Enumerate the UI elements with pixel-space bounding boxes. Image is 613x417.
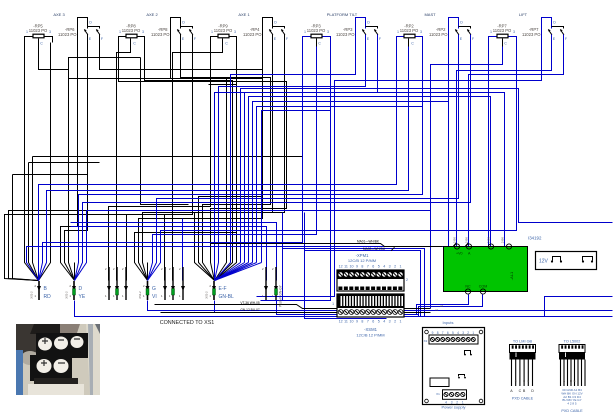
photo of joystick assembly — [16, 324, 100, 395]
wire — [100, 51, 263, 281]
svg-text:8: 8 — [437, 331, 439, 335]
potentiometer -RP5 — [25, 24, 53, 47]
svg-text:11: 11 — [344, 320, 348, 324]
svg-text:9: 9 — [356, 320, 358, 324]
svg-text:11023 PO: 11023 PO — [243, 32, 262, 37]
wire — [257, 51, 542, 297]
wire — [29, 163, 39, 281]
wire — [222, 39, 224, 47]
svg-text:4 2 8 5: 4 2 8 5 — [567, 402, 577, 406]
wire — [192, 35, 194, 51]
wire — [502, 39, 504, 47]
wire — [27, 43, 489, 281]
wire — [253, 102, 449, 263]
svg-text:2: 2 — [394, 320, 396, 324]
wire — [88, 27, 100, 29]
svg-text:CONNECTED TO XS1: CONNECTED TO XS1 — [160, 320, 215, 326]
wire — [245, 93, 505, 263]
wire — [277, 301, 419, 315]
wire — [263, 18, 273, 51]
connector pin D — [65, 281, 86, 300]
wire — [69, 58, 141, 281]
wire — [25, 37, 53, 43]
wire — [147, 263, 149, 281]
connector pin — [179, 267, 185, 300]
switch -RP4 — [243, 18, 289, 51]
wire — [583, 257, 593, 261]
potentiometer -RP7 — [489, 24, 517, 47]
svg-text:TO L5002: TO L5002 — [564, 340, 581, 344]
connector pin B — [30, 281, 52, 300]
svg-text:-XSM1: -XSM1 — [364, 327, 377, 332]
svg-text:11023 PO: 11023 PO — [58, 32, 77, 37]
svg-text:5: 5 — [452, 331, 454, 335]
wire — [356, 18, 366, 51]
svg-text:MAST: MAST — [424, 12, 436, 17]
wire — [489, 37, 517, 43]
wire — [419, 295, 483, 317]
wire — [257, 107, 423, 263]
wire — [145, 43, 233, 281]
switch -RP3 — [336, 18, 382, 51]
svg-text:7: 7 — [367, 320, 369, 324]
svg-text:11023 PO: 11023 PO — [29, 28, 48, 33]
svg-text:2-BK: 2-BK — [453, 237, 457, 243]
wire — [39, 47, 69, 70]
wire — [148, 47, 317, 281]
wire — [126, 215, 128, 281]
svg-text:D: D — [570, 379, 572, 383]
svg-text:1: 1 — [304, 30, 306, 34]
svg-text:D: D — [274, 21, 277, 25]
svg-text:MA02—WH/BU: MA02—WH/BU — [363, 247, 386, 251]
svg-text:Inputs: Inputs — [443, 320, 454, 325]
svg-text:AXE 1: AXE 1 — [238, 12, 250, 17]
wire — [182, 219, 184, 281]
wire — [215, 263, 219, 281]
svg-text:AXE 2: AXE 2 — [146, 12, 158, 17]
svg-text:11023 PO: 11023 PO — [522, 32, 541, 37]
svg-text:GN-12 BU-07: GN-12 BU-07 — [240, 308, 260, 312]
PCB module -AL1 — [444, 244, 528, 294]
wire — [148, 301, 613, 311]
connector pin G — [138, 281, 157, 300]
svg-text:5: 5 — [378, 265, 380, 269]
switch -RP2 — [429, 18, 475, 51]
svg-text:E-F: E-F — [219, 286, 227, 292]
svg-text:3: 3 — [389, 265, 391, 269]
wire — [75, 301, 613, 317]
svg-text:10: 10 — [350, 320, 354, 324]
wire — [209, 85, 237, 281]
wire — [33, 157, 39, 281]
svg-text:3: 3 — [49, 30, 51, 34]
wire — [377, 35, 379, 51]
wire — [78, 18, 88, 51]
svg-text:XS1-2: XS1-2 — [30, 291, 34, 299]
svg-text:11023 PO: 11023 PO — [151, 32, 170, 37]
wire — [5, 51, 193, 281]
svg-text:1: 1 — [26, 30, 28, 34]
svg-text:4: 4 — [383, 320, 385, 324]
wire — [241, 89, 613, 263]
svg-text:1: 1 — [397, 30, 399, 34]
svg-text:12C/B 12 P/MM: 12C/B 12 P/MM — [348, 258, 376, 263]
wire — [75, 51, 471, 281]
wire — [448, 51, 450, 247]
wire — [214, 263, 216, 281]
svg-text:6: 6 — [447, 331, 449, 335]
svg-text:12C/B 12 P/MM: 12C/B 12 P/MM — [356, 333, 384, 338]
svg-text:C: C — [318, 42, 321, 46]
wire — [459, 375, 465, 377]
svg-text:11: 11 — [344, 265, 348, 269]
wire — [33, 156, 303, 158]
svg-text:G: G — [152, 286, 156, 292]
svg-text:11023 PO: 11023 PO — [122, 28, 141, 33]
switch -RP6 — [58, 18, 104, 51]
svg-text:B: B — [563, 379, 565, 383]
wire — [61, 51, 78, 281]
svg-text:11023 PO: 11023 PO — [214, 28, 233, 33]
svg-text:2-BK: 2-BK — [465, 237, 469, 243]
wire — [272, 35, 274, 51]
svg-text:RD: RD — [44, 294, 52, 300]
svg-text:Power supply: Power supply — [441, 405, 465, 410]
wire — [180, 35, 182, 51]
wire — [545, 297, 613, 317]
svg-text:COM: COM — [479, 285, 487, 289]
svg-text:5: 5 — [378, 320, 380, 324]
wire — [449, 18, 459, 51]
svg-text:11023 PO: 11023 PO — [400, 28, 419, 33]
wire — [303, 37, 331, 43]
wire — [148, 51, 459, 281]
wire — [87, 35, 89, 51]
wire — [139, 51, 263, 281]
svg-text:3: 3 — [142, 30, 144, 34]
svg-text:E: E — [527, 379, 529, 383]
connector pin — [113, 267, 119, 300]
wire — [148, 43, 517, 281]
wire — [262, 111, 331, 263]
svg-text:PLATFORM TILT: PLATFORM TILT — [327, 12, 358, 17]
wire — [171, 51, 227, 281]
svg-text:VT-36 WH-05: VT-36 WH-05 — [240, 301, 260, 305]
wire — [119, 37, 145, 43]
svg-text:4: 4 — [457, 331, 459, 335]
connector pin — [169, 267, 175, 300]
svg-text:1: 1 — [400, 265, 402, 269]
wire — [542, 18, 552, 51]
svg-text:NC: NC — [465, 285, 471, 289]
svg-text:X1: X1 — [436, 392, 440, 396]
wire — [215, 51, 378, 263]
wire — [316, 39, 318, 47]
connector TO LMI GB — [510, 340, 536, 401]
wire — [397, 37, 423, 43]
wire — [13, 174, 88, 176]
potentiometer -RP3 — [303, 24, 331, 47]
svg-text:8: 8 — [361, 265, 363, 269]
wire — [215, 263, 257, 281]
wire VT-36 — [155, 305, 431, 309]
wire — [87, 210, 431, 212]
svg-text:7: 7 — [367, 265, 369, 269]
svg-text:YE: YE — [79, 294, 86, 300]
connector pin — [105, 267, 111, 300]
connector pin — [122, 267, 128, 300]
svg-text:3: 3 — [420, 30, 422, 34]
wire — [469, 51, 564, 247]
svg-text:6: 6 — [372, 320, 374, 324]
wire — [39, 43, 303, 281]
wire — [552, 27, 564, 29]
wire — [119, 43, 287, 281]
svg-text:PXD CABLE: PXD CABLE — [561, 409, 583, 413]
wire — [135, 43, 237, 281]
svg-text:VI: VI — [152, 294, 157, 300]
svg-text:C: C — [133, 42, 136, 46]
svg-text:+V0: +V0 — [456, 252, 463, 256]
wire — [458, 35, 460, 51]
svg-text:Push-P GN-GY: Push-P GN-GY — [279, 284, 283, 307]
wire — [71, 227, 267, 281]
svg-text:TO LMI GB: TO LMI GB — [513, 340, 533, 344]
svg-text:2: 2 — [406, 278, 408, 282]
wire — [69, 78, 263, 80]
svg-text:1: 1 — [332, 302, 334, 306]
svg-text:I34192: I34192 — [528, 236, 542, 241]
wire — [143, 51, 273, 281]
wire — [117, 47, 131, 281]
wire — [563, 35, 565, 51]
svg-text:3: 3 — [327, 30, 329, 34]
svg-text:E: E — [574, 379, 576, 383]
svg-text:C: C — [411, 42, 414, 46]
svg-text:2: 2 — [394, 265, 396, 269]
svg-text:PXD CABLE: PXD CABLE — [512, 397, 534, 401]
wire — [173, 47, 223, 281]
svg-text:3: 3 — [513, 30, 515, 34]
wire — [215, 263, 249, 281]
svg-text:GN-BL: GN-BL — [219, 294, 235, 300]
svg-text:C: C — [40, 42, 43, 46]
wire — [195, 51, 285, 281]
svg-text:6: 6 — [372, 265, 374, 269]
battery 12V — [536, 252, 597, 270]
terminal strip -XSM1 — [332, 294, 404, 338]
wire — [39, 43, 51, 281]
svg-text:2: 2 — [467, 331, 469, 335]
svg-text:XS1-2: XS1-2 — [205, 291, 209, 299]
svg-text:7: 7 — [442, 331, 444, 335]
svg-text:X2: X2 — [424, 339, 428, 343]
wire — [215, 263, 245, 281]
svg-text:12: 12 — [339, 320, 343, 324]
svg-text:1: 1 — [472, 331, 474, 335]
svg-text:XS1-2: XS1-2 — [138, 291, 142, 299]
wire — [181, 27, 193, 29]
svg-text:11023 PO: 11023 PO — [307, 28, 326, 33]
svg-text:3: 3 — [462, 331, 464, 335]
svg-text:C: C — [225, 42, 228, 46]
potentiometer -RP2 — [397, 24, 423, 47]
wire — [25, 43, 39, 281]
wire — [109, 43, 211, 281]
switch -RP7 — [522, 18, 568, 51]
wire — [215, 263, 262, 281]
svg-text:12: 12 — [339, 265, 343, 269]
wire — [214, 263, 216, 281]
potentiometer -RP9 — [211, 24, 237, 47]
wire MA01 — [211, 244, 443, 247]
svg-text:10: 10 — [350, 265, 354, 269]
switch -RP8 — [151, 18, 197, 51]
wire — [465, 351, 471, 355]
wire — [9, 211, 173, 281]
wire — [431, 47, 503, 309]
wire — [459, 27, 471, 29]
wire — [282, 213, 284, 301]
svg-text:D: D — [553, 21, 556, 25]
svg-text:D: D — [79, 286, 83, 292]
wire — [261, 43, 331, 301]
svg-text:1: 1 — [400, 320, 402, 324]
wire — [29, 162, 100, 164]
terminal strip -XPM1 — [337, 253, 408, 291]
svg-text:D: D — [523, 379, 525, 383]
svg-text:B: B — [515, 379, 517, 383]
svg-text:D: D — [89, 21, 92, 25]
wire — [417, 295, 469, 315]
wire — [211, 37, 237, 43]
wire — [65, 51, 88, 281]
wire — [71, 223, 277, 281]
wire — [38, 39, 40, 47]
wire MA02 — [305, 251, 421, 317]
connector pin — [161, 267, 167, 300]
svg-text:2-BK: 2-BK — [487, 237, 491, 243]
svg-text:9: 9 — [432, 331, 434, 335]
svg-text:11023 PO: 11023 PO — [336, 32, 355, 37]
wire — [71, 222, 267, 224]
wire — [551, 35, 553, 51]
wire — [365, 35, 367, 51]
svg-text:MA01—WH/BK: MA01—WH/BK — [357, 240, 380, 244]
svg-text:x1: x1 — [435, 308, 438, 312]
wire — [219, 51, 366, 263]
wire — [553, 257, 561, 261]
wire — [215, 301, 419, 313]
wire — [130, 39, 132, 47]
module Inputs/Power supply — [423, 320, 485, 410]
connector pin — [272, 267, 278, 300]
svg-text:8: 8 — [361, 320, 363, 324]
svg-text:11023 PO: 11023 PO — [429, 32, 448, 37]
wire — [75, 43, 423, 281]
svg-text:D: D — [531, 389, 534, 393]
svg-text:9: 9 — [356, 265, 358, 269]
wire — [408, 39, 410, 47]
svg-text:D: D — [460, 21, 463, 25]
svg-text:2-BK: 2-BK — [501, 237, 505, 243]
wire — [181, 51, 271, 281]
potentiometer -RP8 — [119, 24, 145, 47]
wire — [39, 47, 409, 281]
wire — [457, 51, 552, 247]
svg-text:D: D — [367, 21, 370, 25]
svg-text:C: C — [519, 389, 522, 393]
svg-text:-AL1: -AL1 — [509, 271, 514, 280]
wire — [171, 18, 181, 51]
wire — [164, 215, 166, 281]
wire — [231, 51, 356, 263]
svg-text:4: 4 — [383, 265, 385, 269]
svg-text:1: 1 — [119, 30, 121, 34]
svg-text:D: D — [182, 21, 185, 25]
wire — [141, 58, 189, 205]
svg-text:1: 1 — [211, 30, 213, 34]
wire — [366, 27, 378, 29]
wire — [74, 263, 76, 281]
wire — [284, 35, 286, 51]
wire — [305, 213, 387, 319]
wire — [470, 35, 472, 51]
wire — [283, 249, 425, 317]
wire — [215, 263, 241, 281]
svg-text:AXE 3: AXE 3 — [53, 12, 65, 17]
wire — [99, 35, 101, 51]
wire — [215, 263, 231, 281]
svg-text:x2: x2 — [440, 304, 443, 308]
wire — [249, 97, 491, 263]
connector TO L5002 — [559, 340, 585, 414]
wire — [75, 211, 87, 281]
svg-text:1: 1 — [490, 30, 492, 34]
connector pin E-F — [205, 281, 235, 300]
svg-text:XS1-2: XS1-2 — [65, 291, 69, 299]
wire — [13, 175, 39, 281]
wire — [215, 263, 253, 281]
svg-text:LIFT: LIFT — [519, 12, 528, 17]
svg-text:3: 3 — [389, 320, 391, 324]
wire — [273, 27, 285, 29]
connector pin — [262, 267, 268, 300]
svg-text:11023 PO: 11023 PO — [493, 28, 512, 33]
wire GN-12 — [161, 312, 431, 314]
svg-text:C: C — [504, 42, 507, 46]
wire — [39, 43, 397, 281]
svg-text:12V: 12V — [539, 259, 549, 265]
svg-text:3: 3 — [234, 30, 236, 34]
